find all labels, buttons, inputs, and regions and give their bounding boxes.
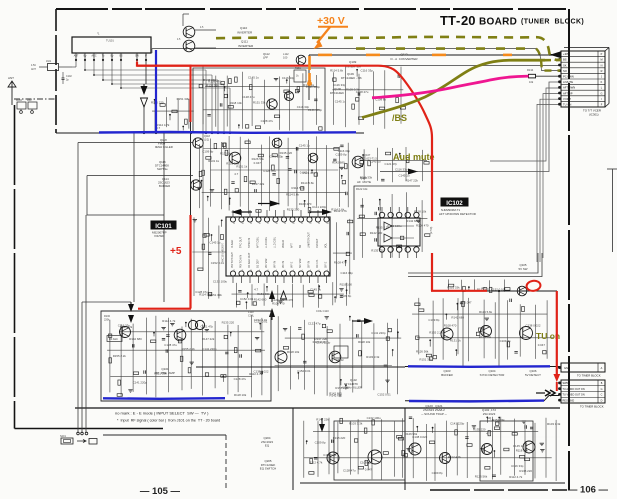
svg-text:TU VIDEO OUT ON: TU VIDEO OUT ON [563,394,585,397]
svg-text:24: 24 [326,223,328,225]
wire y291 Q105 [483,290,557,292]
blue wire vertical x156 [155,50,157,133]
svg-text:23: 23 [318,223,320,225]
svg-text:BS: BS [563,58,567,62]
svg-text:20: 20 [292,223,294,225]
svg-text:R126 56k: R126 56k [479,335,492,339]
svg-text:R131 1k: R131 1k [236,165,247,169]
wire bundle TU ON [537,104,560,262]
svg-text:C116 33p: C116 33p [282,76,295,80]
wire y367 right segment [405,366,560,368]
svg-text:M: M [600,59,602,62]
svg-text:AFT UP/DOWN DETECTOR: AFT UP/DOWN DETECTOR [439,212,476,216]
svg-text:C109 8p: C109 8p [315,441,326,445]
svg-text:5V DETECT: 5V DETECT [525,373,541,377]
svg-text:R131 1k: R131 1k [208,159,219,163]
svg-text:IF AGC: IF AGC [231,240,234,248]
IC101 body [226,217,330,276]
svg-text:C121 47p: C121 47p [302,171,315,175]
svg-text:R103 3.3k: R103 3.3k [349,422,363,426]
sound trap double circle [188,320,197,329]
box Q109 small [294,70,306,82]
orange wire vertical [308,56,311,82]
svg-text:INVERTER: INVERTER [237,31,253,35]
svg-text:LPF: LPF [263,56,268,60]
svg-text:R112 4.7k: R112 4.7k [509,475,523,479]
svg-text:2: 2 [318,270,319,272]
svg-text:R134: R134 [527,68,534,72]
divider x293 [292,408,294,490]
svg-text:R108 470: R108 470 [334,260,347,264]
texture IC101 left side components [193,217,195,296]
svg-text:VIF IN: VIF IN [282,261,285,268]
arrow IC101 top right [270,201,280,207]
svg-text:Aud mute: Aud mute [393,152,435,162]
svg-text:D - A CONVERTER: D - A CONVERTER [390,57,418,61]
svg-text:R147 22k: R147 22k [316,418,329,422]
red wire y309 [138,308,191,310]
texture Q109 area components [333,72,335,125]
svg-text:0.047: 0.047 [254,161,262,165]
svg-text:C141 220p: C141 220p [312,205,327,209]
box left outer [78,142,193,144]
svg-text:4.5MHz KILLER: 4.5MHz KILLER [342,386,362,390]
wire Q110 collector [195,29,216,31]
svg-text:C141 220p: C141 220p [450,422,465,426]
texture bottom EQ components [303,421,305,478]
transistor Q105 [517,286,527,296]
frame bottom-right border [430,489,567,491]
svg-text:R135 220: R135 220 [151,101,164,105]
svg-text:9MHz KILLER: 9MHz KILLER [155,145,173,149]
arrow bottom left [321,418,323,424]
arrow double chevron [545,390,555,396]
svg-text:C141 220p: C141 220p [202,347,217,351]
box sound trap [334,421,405,480]
svg-text:13: 13 [233,223,235,225]
svg-text:R118 10k: R118 10k [358,340,371,344]
svg-text:C128 47u: C128 47u [263,169,276,173]
red wire x557 down [556,291,558,374]
svg-text:C132 100u: C132 100u [367,416,382,420]
svg-text:C145 1u: C145 1u [248,75,259,79]
box IC102 section [354,186,420,260]
svg-text:10k: 10k [529,80,534,84]
box left mid [87,175,193,177]
svg-text:VIF/SIF: VIF/SIF [154,234,164,238]
svg-text:9: 9 [259,270,260,272]
transistor Q113 [267,99,277,109]
svg-text:PIX TCH OUT: PIX TCH OUT [231,252,234,268]
svg-text:R112 4.7k: R112 4.7k [156,123,170,127]
svg-text:TO TIMER BLOCK: TO TIMER BLOCK [580,405,604,409]
svg-text:SK: SK [563,63,567,67]
svg-text:COIL C110: COIL C110 [316,309,329,313]
svg-text:R155 2.2k: R155 2.2k [182,347,196,351]
arrow +30V into connector [550,51,561,58]
svg-text:R122 10k: R122 10k [356,187,368,191]
svg-text:C128 47u: C128 47u [164,343,177,347]
svg-text:R: R [601,70,603,73]
svg-text:PIX TCH IN: PIX TCH IN [240,255,243,268]
svg-text:B1 DEF: B1 DEF [257,259,260,268]
arrows below IC101 [269,290,275,299]
svg-text:19: 19 [284,223,286,225]
svg-text:/BS: /BS [392,113,407,123]
arrow AF mute [408,169,418,175]
svg-text:TU ON: TU ON [563,103,571,107]
svg-text:SW5V: SW5V [563,382,570,385]
svg-text:Q111: Q111 [241,40,248,44]
svg-text:N: N [601,64,603,67]
svg-text:SIF IN: SIF IN [308,261,311,268]
IC102 body [378,218,420,246]
svg-text:R151 33k: R151 33k [360,175,373,179]
wire x191 vertical [190,121,192,216]
svg-text:C141 220p: C141 220p [269,154,284,158]
svg-text:— 105 —: — 105 — [140,486,181,497]
svg-text:C121 47p: C121 47p [308,322,321,326]
box bottom-left [103,434,226,436]
transistor Q107 [352,156,364,168]
connector J102 to T/T VCER [561,51,605,107]
svg-text:VOL: VOL [325,242,328,248]
svg-text:C109 8p: C109 8p [202,150,213,154]
svg-text:R112 4.7k: R112 4.7k [162,319,176,323]
svg-text:0.047: 0.047 [365,467,373,471]
svg-text:0.047: 0.047 [464,300,472,304]
IC102 top pins [379,212,384,217]
svg-text:R126 56k: R126 56k [475,475,488,479]
svg-text:GND: GND [564,366,570,370]
svg-text:IC102: IC102 [446,200,463,207]
texture Q107 area components [363,149,365,180]
box left inner [87,214,165,216]
svg-text:3: 3 [310,270,311,272]
svg-text:C145 1u: C145 1u [310,288,321,292]
svg-text:6: 6 [284,270,285,272]
svg-text:DC F.B.: DC F.B. [316,259,319,268]
svg-text:ANT: ANT [31,68,36,71]
svg-text:R151 33k: R151 33k [154,372,167,376]
tuner TU101 box [72,37,151,53]
wire SW pin to blue [136,60,138,62]
transistor Q118 [193,138,203,148]
svg-text:21: 21 [301,223,303,225]
wire bottom top rail [306,436,560,438]
svg-text:R103 3.3k: R103 3.3k [366,355,380,359]
svg-text:8: 8 [267,270,268,272]
svg-text:R119 100: R119 100 [340,282,353,286]
svg-text:7: 7 [276,270,277,272]
frame right border [568,9,570,490]
wire bus y133 [56,132,364,134]
transistor Q114 [191,180,201,190]
svg-text:HIC101 M52007: HIC101 M52007 [221,243,225,262]
red wire x190 upper [190,65,192,123]
svg-text:C121 47p: C121 47p [201,324,214,328]
svg-text:R142 680: R142 680 [451,315,464,319]
svg-text:RF AGC OUT: RF AGC OUT [248,252,251,268]
svg-text:(2.50): (2.50) [429,227,433,234]
svg-text:SIF VD2: SIF VD2 [299,258,302,268]
svg-text:C145 1u: C145 1u [513,444,524,448]
svg-text:R142 680: R142 680 [332,161,345,165]
svg-text:R155 2.2k: R155 2.2k [113,354,127,358]
box CP102 [334,346,348,358]
svg-text:Q107: Q107 [364,153,371,157]
svg-text:C: C [601,394,603,397]
red annotation circle [526,280,541,292]
red wire x190 lower [189,215,191,309]
svg-text:4.7: 4.7 [234,172,238,176]
svg-text:R114 5.6k: R114 5.6k [199,293,213,297]
capacitor C102 [62,72,64,78]
texture RF box components [109,320,111,393]
svg-text:TT: TT [440,13,456,28]
svg-text:— 106 —: — 106 — [568,485,609,496]
texture IC102 area components [362,198,364,258]
IC101 top pins [230,217,235,222]
svg-text:R151 33k: R151 33k [253,101,266,105]
svg-text:16: 16 [258,223,260,225]
svg-text:-: - [456,13,460,28]
svg-text:BUFFER: BUFFER [441,373,453,377]
svg-text:D: D [601,399,603,402]
svg-text:(1/2): (1/2) [204,139,209,142]
svg-text:INVERTER: INVERTER [238,44,254,48]
svg-text:15: 15 [250,223,252,225]
svg-text:R135 220: R135 220 [333,436,346,440]
transistor Q112 [296,55,306,65]
svg-text:PC PWN: PC PWN [563,75,574,79]
svg-text:C116 33p: C116 33p [361,69,374,73]
svg-text:C116 33p: C116 33p [341,271,354,275]
svg-text:10: 10 [250,270,252,272]
transistor Q106 [520,327,533,340]
transistor Q103 [275,351,287,363]
wire bundle AFT DWN [490,88,560,161]
svg-text:C141 220p: C141 220p [316,341,331,345]
svg-text:R126 56k: R126 56k [252,157,265,161]
texture IF converter components [202,76,204,124]
texture right of IC101 components [336,222,338,298]
svg-text:C121 47p: C121 47p [385,162,398,166]
svg-text:5: 5 [293,270,294,272]
svg-text:+30 V: +30 V [317,15,345,27]
svg-text:CP102: CP102 [336,359,344,362]
divider x405 [404,408,406,490]
blue wire y398 left [103,397,225,400]
svg-text:IC101: IC101 [155,223,172,230]
blue wire y366 [408,365,550,368]
svg-text:17: 17 [267,223,269,225]
resistor R134 [529,74,536,78]
wire x499 vertical [498,291,500,366]
svg-text:220k: 220k [104,318,110,321]
frame bottom middle border [75,407,560,409]
red arrow down [553,374,560,382]
svg-text:C145 1u: C145 1u [370,159,381,163]
transistor Q110 [183,26,195,38]
svg-text:22: 22 [309,223,311,225]
svg-text:R108 470: R108 470 [272,302,285,306]
svg-text:R118 10k: R118 10k [234,393,247,397]
svg-text:C109 8p: C109 8p [336,153,347,157]
arrow signal down hollow [141,98,148,107]
svg-text:G: G [601,92,603,95]
svg-text:20: 20 [461,13,475,28]
svg-text:R118 10k: R118 10k [287,350,300,354]
wire x134 vertical [133,133,135,290]
svg-text:12: 12 [233,270,235,272]
svg-text:+5: +5 [170,246,182,257]
red wire y291 [431,290,487,292]
red wire x432 lower [431,253,433,291]
svg-text:R114 5.6k: R114 5.6k [479,310,493,314]
svg-text:R147 22k: R147 22k [202,337,215,341]
svg-text:C138 0.022: C138 0.022 [254,370,269,374]
wire IF pin down [145,60,147,84]
svg-text:REG GND: REG GND [563,399,575,402]
wire antenna down [14,105,16,428]
svg-text:SIF E: SIF E [325,261,328,268]
svg-text:R126 56k: R126 56k [206,84,219,88]
texture central IF components [199,144,201,208]
svg-text:R142 680: R142 680 [406,219,419,223]
svg-text:C141 220p: C141 220p [133,380,148,384]
svg-text:DTC114EK: DTC114EK [330,91,344,95]
svg-text:J101: J101 [46,60,52,63]
svg-text:R151 33k: R151 33k [492,418,505,422]
svg-text:R142 680: R142 680 [370,231,383,235]
box IC101 outer edge [163,133,165,302]
box IF converter section [193,68,325,133]
svg-text:14: 14 [241,223,243,225]
svg-text:R103 3.3k: R103 3.3k [346,87,360,91]
svg-text:R135 220: R135 220 [287,207,300,211]
wire dash-dot antenna to frame [14,98,56,100]
svg-text:FM DET: FM DET [316,238,319,248]
svg-text:A MUTE: A MUTE [563,80,573,84]
svg-text:R131 1k: R131 1k [450,338,461,342]
svg-text:AFT: AFT [291,243,294,248]
svg-text:AF MUTE: AF MUTE [357,180,371,184]
transistor Q119 [308,153,318,163]
svg-text:R103 3.3k: R103 3.3k [547,422,561,426]
connector J101 [48,64,59,71]
tuner pin wires [75,60,77,68]
svg-text:C116 33p: C116 33p [511,464,524,468]
svg-text:C109 8p: C109 8p [500,339,511,343]
svg-text:C128 47u: C128 47u [234,377,247,381]
svg-text:TU101: TU101 [106,39,114,43]
svg-text:R151 33k: R151 33k [419,358,432,362]
olive solid wire /BS [362,60,545,117]
blue wire y132 [99,131,356,134]
wire left vertical to switch [81,302,83,433]
IC102 op-amps [384,222,392,230]
frame left border [14,105,16,429]
svg-text:C132 100u: C132 100u [213,279,228,283]
svg-text:TPC OUT: TPC OUT [240,237,243,248]
IC102 bottom pins [379,247,384,252]
svg-text:* Input RF signal ( color ba: * Input RF signal ( color bar ) from J10… [117,419,220,423]
svg-text:C141 220p: C141 220p [308,108,323,112]
svg-text:0.047: 0.047 [538,343,546,347]
svg-text:C152 0.01: C152 0.01 [297,369,311,373]
svg-text:C145 1u: C145 1u [209,240,220,244]
olive dashed wire SO [356,47,536,50]
svg-text:R108 470: R108 470 [208,80,221,84]
svg-text:R114 5.6k: R114 5.6k [292,186,306,190]
svg-text:(TUNER BLOCK): (TUNER BLOCK) [521,19,584,26]
svg-text:BOARD: BOARD [479,17,517,28]
transistor Q102 [329,351,341,363]
svg-text:RF AGC: RF AGC [109,338,118,341]
svg-text:SYNC DETECTOR: SYNC DETECTOR [480,373,505,377]
svg-text:L112: L112 [283,52,289,56]
svg-text:C145 1u: C145 1u [335,99,346,103]
IC101 bottom pins [230,271,235,276]
IC102 label [441,198,469,207]
svg-text:C128 47u: C128 47u [343,468,356,472]
svg-text:R126 56k: R126 56k [416,350,429,354]
svg-text:C152 0.01: C152 0.01 [240,297,254,301]
svg-text:LIMITER OUT: LIMITER OUT [308,232,311,248]
svg-text:VIF IN: VIF IN [274,261,277,268]
texture right-mid components [418,298,420,355]
svg-text:C109 8p: C109 8p [340,294,351,298]
transistor Q109a [284,91,293,100]
wire +30V line y55 [309,54,549,56]
wire AF mute row6 [417,82,560,172]
transistor Q117 [229,152,241,164]
svg-text:VIF E: VIF E [291,261,294,268]
svg-text:R126 56k: R126 56k [405,432,418,436]
svg-text:R151: R151 [295,67,301,70]
svg-text:1: 1 [327,270,328,272]
transistor Q111 [183,40,195,52]
svg-text:TO TIMER BLOCK: TO TIMER BLOCK [577,374,601,378]
box EQ right [480,421,533,481]
IC101 label [151,221,177,230]
svg-text:R147 22k: R147 22k [252,182,265,186]
magenta wire PC PWN [372,76,529,98]
svg-text:V DET: V DET [563,97,571,101]
svg-text:AFT COIL: AFT COIL [257,236,260,248]
label RF AGC box [107,336,122,342]
orange dashes on +30V line [318,54,332,57]
svg-text:4.5C: 4.5C [31,64,36,67]
texture Q105 strip components [448,279,450,290]
wire grey bus y48 [152,49,560,71]
svg-text:C141 220p: C141 220p [371,331,386,335]
wire row5 stub [536,75,560,77]
connector GND to timer block [561,363,605,372]
svg-text:R114 5.6k: R114 5.6k [286,192,300,196]
svg-text:R108 470: R108 470 [299,202,312,206]
svg-text:BUFFER: BUFFER [159,184,170,188]
svg-text:C141 220p: C141 220p [306,85,321,89]
box RF pre amp [101,311,271,401]
connector audio/video out [561,380,605,403]
svg-text:C152 0.01: C152 0.01 [254,318,268,322]
texture mid-bottom components [277,316,279,391]
transistor Q104 [481,326,492,337]
svg-text:R135 220: R135 220 [519,469,532,473]
frame top border [56,8,566,10]
